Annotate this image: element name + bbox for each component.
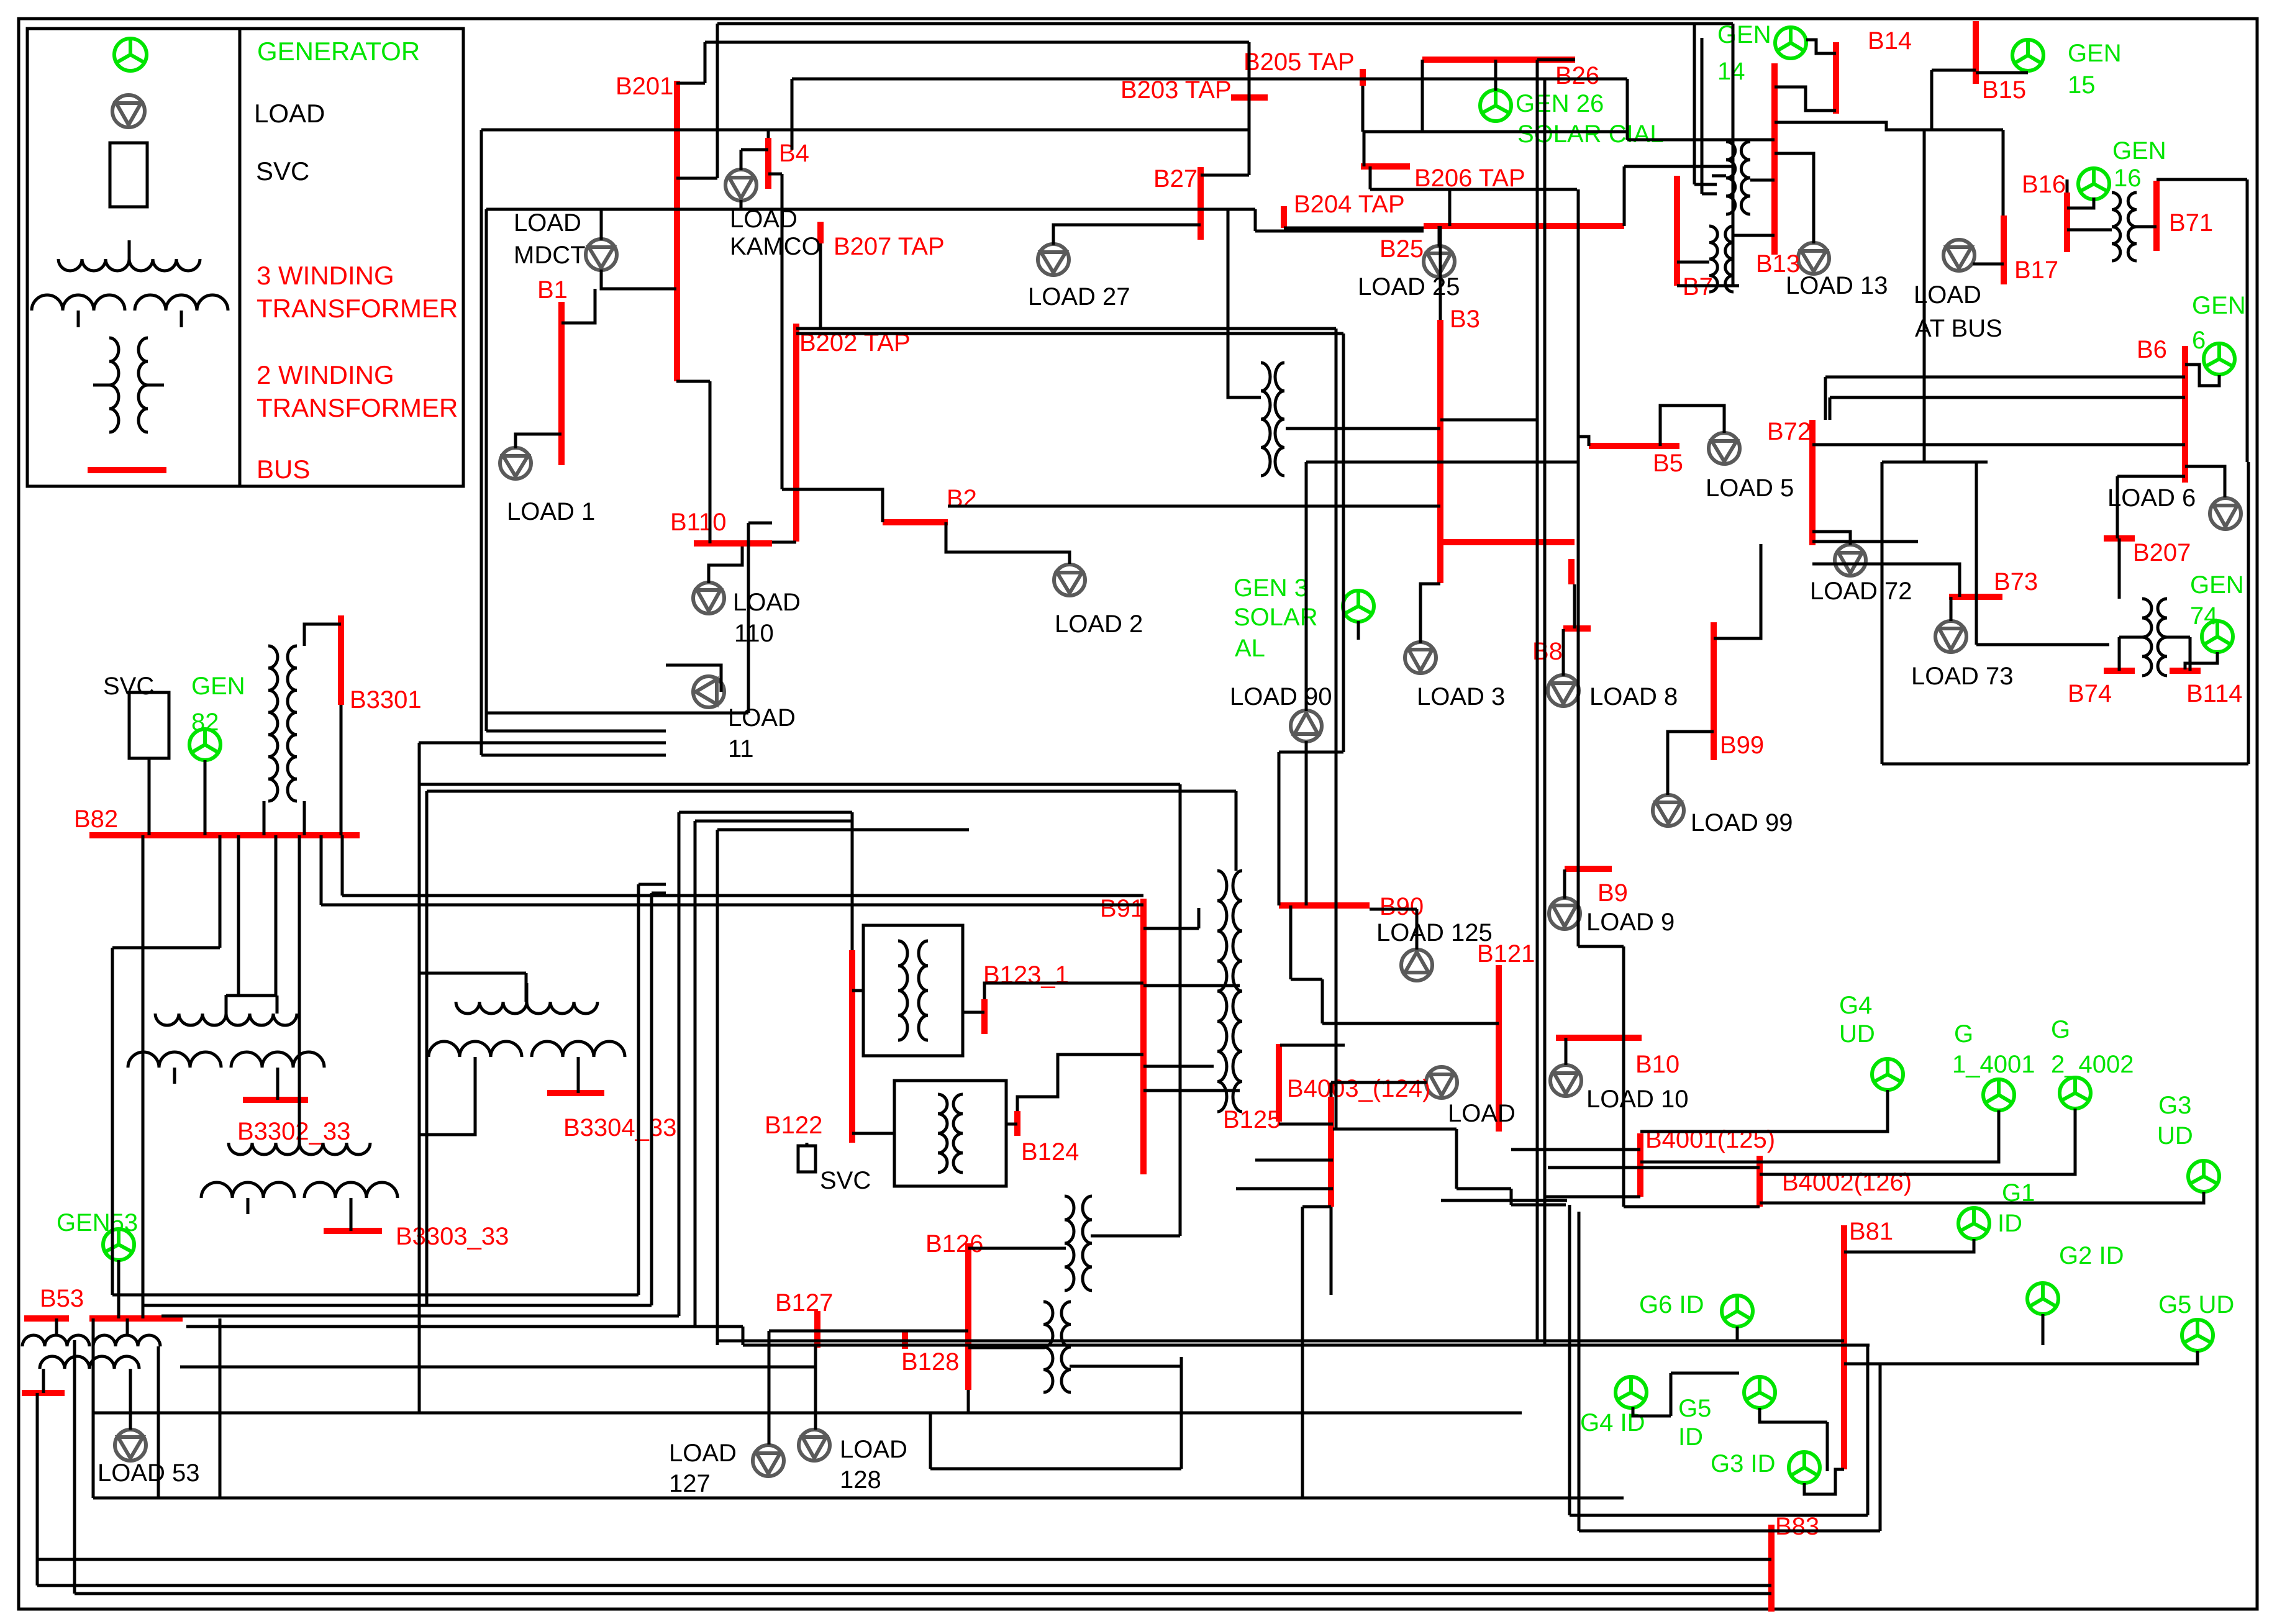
svg-text:ID: ID [1678, 1423, 1703, 1451]
svg-text:B4: B4 [779, 140, 809, 167]
svg-text:LOAD 125: LOAD 125 [1376, 919, 1493, 946]
svg-text:B16: B16 [2022, 171, 2066, 198]
svg-text:B3301: B3301 [350, 686, 422, 714]
svg-text:B10: B10 [1635, 1051, 1679, 1078]
svg-text:B110: B110 [670, 509, 726, 536]
svg-text:MDCT: MDCT [514, 242, 586, 269]
svg-text:G6 ID: G6 ID [1639, 1291, 1704, 1318]
svg-text:GEN: GEN [2112, 137, 2166, 165]
svg-text:110: 110 [734, 620, 774, 647]
svg-text:B207 TAP: B207 TAP [834, 233, 945, 260]
svg-text:GEN: GEN [2192, 292, 2246, 319]
svg-text:GEN: GEN [2190, 571, 2244, 599]
svg-text:2_4002: 2_4002 [2051, 1051, 2134, 1078]
svg-text:G5 UD: G5 UD [2158, 1291, 2234, 1318]
svg-text:GEN53: GEN53 [57, 1209, 138, 1236]
svg-text:B205 TAP: B205 TAP [1243, 48, 1355, 76]
svg-text:B83: B83 [1775, 1513, 1819, 1540]
svg-text:B204 TAP: B204 TAP [1294, 191, 1405, 218]
svg-text:B122: B122 [765, 1112, 822, 1139]
svg-text:B25: B25 [1379, 235, 1424, 263]
svg-text:B14: B14 [1868, 27, 1912, 55]
svg-text:GEN: GEN [1717, 21, 1771, 48]
svg-text:B203 TAP: B203 TAP [1120, 76, 1232, 104]
svg-text:B6: B6 [2137, 336, 2167, 363]
svg-text:LOAD 13: LOAD 13 [1786, 272, 1888, 299]
svg-text:B53: B53 [40, 1285, 84, 1312]
svg-text:GEN 26: GEN 26 [1516, 90, 1604, 117]
svg-text:GENERATOR: GENERATOR [257, 37, 420, 66]
svg-text:B3302_33: B3302_33 [237, 1118, 350, 1145]
svg-text:B72: B72 [1767, 418, 1811, 445]
svg-text:B114: B114 [2186, 680, 2242, 707]
svg-text:LOAD 8: LOAD 8 [1589, 683, 1678, 710]
svg-text:LOAD 99: LOAD 99 [1691, 809, 1793, 837]
svg-text:LOAD 6: LOAD 6 [2107, 484, 2196, 512]
svg-text:B128: B128 [901, 1348, 959, 1376]
svg-text:GEN: GEN [2068, 40, 2122, 67]
svg-text:B81: B81 [1849, 1218, 1893, 1245]
svg-text:B3303_33: B3303_33 [396, 1223, 509, 1250]
svg-text:LOAD: LOAD [840, 1436, 907, 1463]
svg-text:B206 TAP: B206 TAP [1414, 165, 1525, 192]
svg-text:B3304_33: B3304_33 [563, 1114, 676, 1141]
svg-text:15: 15 [2068, 71, 2096, 99]
svg-text:LOAD 2: LOAD 2 [1055, 610, 1143, 638]
svg-text:B127: B127 [775, 1289, 833, 1317]
svg-text:B9: B9 [1598, 879, 1628, 907]
svg-text:LOAD: LOAD [254, 99, 325, 128]
svg-text:B124: B124 [1021, 1138, 1079, 1166]
svg-text:LOAD: LOAD [514, 209, 581, 237]
svg-text:TRANSFORMER: TRANSFORMER [257, 294, 458, 323]
svg-text:SOLAR CIAL: SOLAR CIAL [1517, 120, 1664, 148]
svg-text:G: G [1954, 1020, 1973, 1048]
svg-text:LOAD 73: LOAD 73 [1911, 663, 2014, 690]
svg-text:B71: B71 [2169, 209, 2213, 237]
svg-text:SVC: SVC [820, 1167, 871, 1194]
svg-text:B73: B73 [1994, 568, 2038, 596]
svg-text:LOAD 53: LOAD 53 [98, 1459, 200, 1487]
svg-text:14: 14 [1717, 58, 1745, 85]
svg-text:LOAD 3: LOAD 3 [1417, 683, 1505, 710]
svg-text:3 WINDING: 3 WINDING [257, 261, 394, 290]
svg-text:B4003_(124): B4003_(124) [1287, 1075, 1430, 1102]
svg-text:ID: ID [1997, 1210, 2022, 1237]
svg-text:B2: B2 [947, 485, 977, 512]
svg-text:82: 82 [191, 709, 219, 736]
svg-text:KAMCO: KAMCO [730, 233, 821, 260]
svg-text:LOAD: LOAD [1448, 1100, 1516, 1127]
svg-text:B74: B74 [2068, 680, 2112, 707]
svg-text:LOAD 5: LOAD 5 [1706, 474, 1794, 502]
svg-text:BUS: BUS [257, 455, 310, 484]
svg-text:127: 127 [669, 1470, 711, 1497]
svg-text:AL: AL [1235, 635, 1265, 662]
svg-text:B15: B15 [1982, 76, 2026, 104]
svg-text:11: 11 [728, 735, 754, 763]
svg-text:B1: B1 [537, 276, 568, 304]
svg-text:B82: B82 [74, 805, 118, 833]
svg-text:B91: B91 [1100, 895, 1144, 922]
svg-text:LOAD 9: LOAD 9 [1586, 909, 1675, 936]
svg-text:G4: G4 [1839, 992, 1872, 1019]
svg-text:LOAD 90: LOAD 90 [1230, 683, 1332, 710]
svg-text:GEN: GEN [191, 673, 245, 700]
svg-text:LOAD 10: LOAD 10 [1586, 1086, 1689, 1113]
svg-text:B99: B99 [1720, 732, 1764, 759]
svg-text:B207: B207 [2133, 539, 2191, 566]
svg-text:B201: B201 [616, 73, 673, 100]
svg-text:B3: B3 [1450, 306, 1480, 333]
svg-text:1_4001: 1_4001 [1952, 1051, 2035, 1078]
svg-text:B5: B5 [1653, 450, 1683, 477]
svg-text:G3: G3 [2158, 1092, 2191, 1119]
svg-text:GEN 3: GEN 3 [1234, 574, 1308, 602]
svg-text:G5: G5 [1678, 1395, 1711, 1422]
svg-text:74: 74 [2190, 602, 2218, 630]
svg-text:SVC: SVC [256, 157, 309, 186]
svg-text:LOAD 27: LOAD 27 [1028, 283, 1130, 311]
svg-text:UD: UD [2157, 1122, 2193, 1150]
svg-text:LOAD 1: LOAD 1 [507, 498, 595, 525]
svg-text:LOAD: LOAD [669, 1440, 737, 1467]
svg-text:G2 ID: G2 ID [2059, 1242, 2124, 1269]
svg-text:B26: B26 [1555, 62, 1599, 89]
svg-text:B125: B125 [1223, 1106, 1281, 1133]
svg-text:LOAD 25: LOAD 25 [1358, 273, 1460, 301]
svg-text:6: 6 [2192, 327, 2206, 354]
svg-text:LOAD 72: LOAD 72 [1810, 578, 1912, 605]
svg-text:B126: B126 [925, 1230, 983, 1258]
svg-text:B27: B27 [1153, 165, 1198, 193]
svg-text:G3 ID: G3 ID [1711, 1450, 1775, 1477]
svg-text:2 WINDING: 2 WINDING [257, 360, 394, 389]
svg-text:16: 16 [2114, 165, 2142, 192]
svg-text:AT BUS: AT BUS [1915, 315, 2002, 342]
svg-text:B17: B17 [2014, 256, 2058, 284]
svg-text:LOAD: LOAD [733, 589, 801, 616]
svg-text:G4 ID: G4 ID [1580, 1409, 1645, 1436]
svg-text:128: 128 [840, 1466, 881, 1494]
svg-text:TRANSFORMER: TRANSFORMER [257, 393, 458, 422]
svg-text:LOAD: LOAD [728, 704, 796, 732]
svg-text:G: G [2051, 1016, 2070, 1043]
svg-text:UD: UD [1839, 1020, 1875, 1048]
